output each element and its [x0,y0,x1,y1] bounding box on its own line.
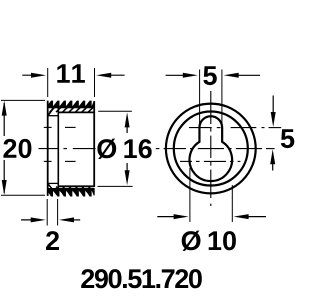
dimension 5 top: right arrow [224,73,260,78]
left view: body right edge [93,101,95,187]
dimension 5 top: value label [203,66,217,85]
left view: top flange corner line [48,115,59,117]
dimension diameter 10: extension lines [190,168,232,222]
dimension 11: left arrow [22,73,46,78]
dimension diameter 10: left arrow [157,214,188,219]
dimension 5 right: up arrow [270,149,275,170]
left view: bore end inner vertical line [57,103,59,193]
dimension 2: left arrow [21,217,46,222]
dimension diameter 10: value label [182,231,236,251]
left view: main centreline [39,148,96,150]
part number label 290.51.720 [81,269,202,288]
dimension 5 top: left arrow [166,73,198,78]
dimension 11: value label [57,64,85,83]
left view: bottom flange corner line [48,182,59,184]
right view: keyhole cutout [189,116,232,181]
dimension 5 right: value label [281,129,295,148]
dimension 2: right arrow [59,217,80,222]
left view: body bottom edge [58,185,94,187]
dimension diameter 16: extension lines [98,111,133,186]
right view: keyhole bore centreline [180,160,240,162]
right view: outer circle (knurled OD) [166,104,256,194]
dimension 11: extension lines [48,68,95,97]
dimension 11: right arrow [96,73,124,78]
left view: body top edge [58,111,94,113]
left view: keyhole neck centre hidden line [44,126,76,128]
dimension 20: dimension line with arrows [2,101,7,195]
dimension diameter 16: dimension line with arrows [125,112,130,185]
dimension 20: extension lines [1,100,45,195]
right view: vertical centreline [210,91,212,206]
left view: sleeve body left edge [47,101,49,196]
right view: inner circle (16 mm body) [174,112,248,186]
dimension 5 top: extension lines [200,70,222,127]
left view: keyhole bore centre hidden line [44,160,76,162]
dimension 2: value label [46,231,59,250]
right view: neck centreline (dashed) [189,127,281,129]
dimension 2: extension lines [47,199,57,226]
dimension diameter 10: right arrow [234,214,266,219]
dimension 5 right: down arrow [271,96,276,128]
left view: bottom knurled band (teeth + hatching) [46,184,95,196]
right view: horizontal centreline [156,148,275,150]
dimension 20: value label [3,139,31,158]
dimension diameter 16: value label [97,139,151,159]
